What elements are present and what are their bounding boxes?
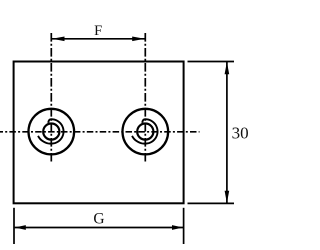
vertical centerline right hole [144, 33, 146, 162]
horizontal centerline [0, 131, 200, 133]
hole right: thread spiral [132, 119, 158, 143]
hole left: inner bore circle [43, 124, 59, 140]
hole left: thread spiral [38, 119, 64, 143]
hole right: inner bore circle [137, 124, 153, 140]
dimension G line [15, 227, 183, 229]
plate outline [14, 62, 184, 204]
dimension G arrow right [172, 225, 183, 230]
svg-text:G: G [93, 211, 104, 228]
svg-text:F: F [94, 23, 102, 39]
dimension 30 arrow bottom [225, 191, 230, 203]
dimension F arrow left [52, 37, 65, 42]
dimension F arrow right [132, 37, 145, 42]
dimension 30 extension line top [188, 61, 235, 63]
dimension G extension line right [183, 208, 185, 244]
dimension F line [52, 38, 145, 40]
dimension G arrow left [15, 225, 26, 230]
dimension 30 arrow top [225, 62, 230, 74]
svg-text:30: 30 [232, 123, 249, 142]
dimension 30 line [226, 62, 228, 203]
dimension G extension line left [13, 208, 15, 244]
hole right: counterbore outer circle [123, 109, 169, 155]
hole left: counterbore outer circle [29, 109, 75, 155]
dimension 30 extension line bottom [188, 202, 235, 204]
vertical centerline left hole [50, 33, 52, 162]
